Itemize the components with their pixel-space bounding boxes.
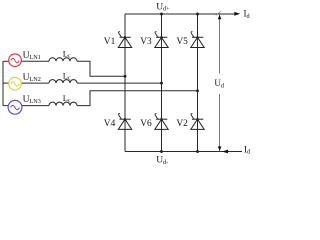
bridge leg 1 wire — [124, 14, 126, 152]
wire phase 1 to bridge (step down) — [77, 61, 125, 76]
node phase1 x leg1 — [124, 75, 127, 78]
thyristor V2 — [191, 114, 204, 130]
inductor Lc phase 1 — [49, 58, 77, 61]
arrow I_d (bottom right, pointing left) — [222, 150, 228, 154]
bottom rail U_d- wire — [125, 151, 242, 153]
node phase2 x leg2 — [160, 82, 163, 85]
arrow I_d (top right) — [234, 12, 240, 16]
wire phase 1 (source to inductor) — [20, 60, 49, 62]
bridge leg 3 wire — [197, 14, 199, 152]
wire stub source 1 — [3, 60, 10, 62]
wire phase 3 to bridge (step up) — [77, 91, 198, 106]
svg-text:ULN2: ULN2 — [23, 73, 41, 83]
svg-text:Ud+: Ud+ — [156, 3, 170, 13]
neutral bus wire (left vertical) — [2, 61, 4, 105]
thyristor V4 — [118, 114, 131, 130]
thyristor V6 — [155, 114, 168, 130]
svg-text:Ud-: Ud- — [156, 156, 168, 166]
top rail U_d+ wire — [125, 13, 236, 15]
svg-text:V6: V6 — [140, 119, 152, 129]
svg-text:V4: V4 — [104, 119, 116, 129]
node bottom rail x leg2 — [160, 150, 163, 153]
svg-text:V5: V5 — [176, 37, 188, 47]
wire phase 2 to bridge — [77, 82, 162, 84]
svg-text:ULN3: ULN3 — [23, 95, 41, 105]
svg-text:Id: Id — [244, 144, 250, 155]
svg-text:Lc: Lc — [63, 93, 71, 104]
wire stub source 3 — [3, 105, 10, 107]
node phase3 x leg3 — [196, 89, 199, 92]
svg-text:ULN1: ULN1 — [23, 51, 41, 61]
wire phase 2 (source to inductor) — [20, 82, 49, 84]
node top rail x leg3 — [196, 13, 199, 16]
AC source U_LN1 — [9, 54, 22, 67]
svg-text:V1: V1 — [104, 37, 116, 47]
wire phase 3 (source to inductor) — [20, 105, 49, 107]
svg-text:Lc: Lc — [63, 49, 71, 60]
U_d measure line lower segment — [219, 94, 221, 152]
wire stub source 2 — [3, 82, 10, 84]
tick at U_d top junction — [216, 11, 221, 15]
node bottom rail x leg3 — [196, 150, 199, 153]
AC source U_LN2 — [9, 77, 22, 90]
svg-text:V3: V3 — [140, 37, 152, 47]
svg-text:Id: Id — [244, 9, 251, 20]
inductor Lc phase 3 — [49, 102, 77, 106]
AC source U_LN3 — [8, 100, 22, 114]
svg-text:V2: V2 — [176, 119, 188, 129]
bridge leg 2 wire — [161, 14, 163, 152]
thyristor V1 — [118, 32, 131, 48]
thyristor V5 — [191, 32, 204, 48]
arrow up (U_d top) — [218, 15, 222, 20]
svg-text:Ud: Ud — [214, 78, 225, 89]
node top rail x leg2 — [160, 13, 163, 16]
svg-text:Lc: Lc — [63, 71, 71, 82]
thyristor V3 — [155, 32, 168, 48]
U_d measure line upper segment — [219, 14, 221, 74]
inductor Lc phase 2 — [49, 80, 77, 84]
arrow down (U_d bottom) — [218, 146, 222, 151]
